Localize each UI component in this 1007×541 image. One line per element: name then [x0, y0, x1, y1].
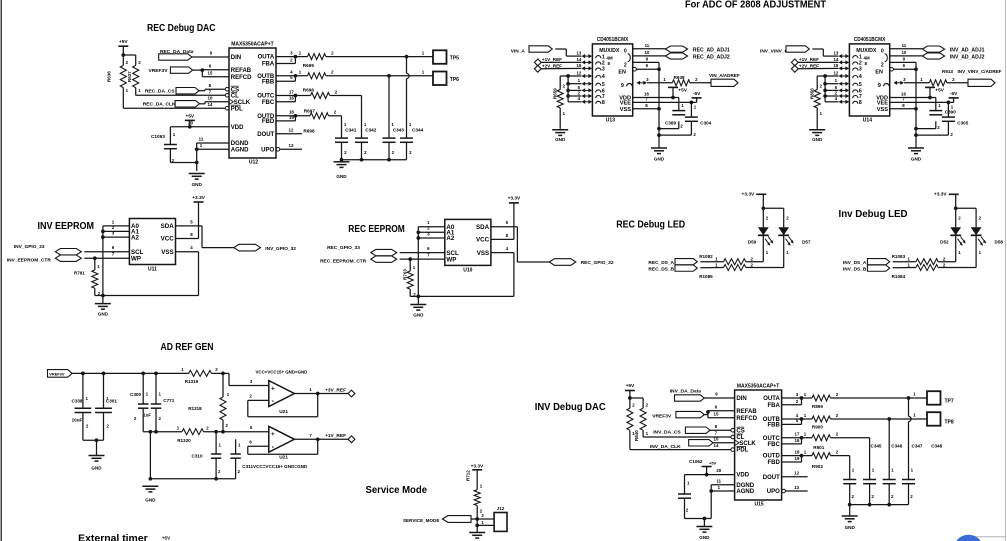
wire OUTA to TP7 and C348	[831, 392, 928, 480]
wire caps common ground INV	[848, 484, 909, 507]
op-amp U21 A	[256, 369, 308, 414]
capacitor C346	[863, 444, 903, 499]
wire +5V to resistor pair split	[121, 53, 135, 65]
svg-text:3: 3	[602, 67, 605, 73]
svg-text:FBB: FBB	[767, 423, 780, 429]
wire FBB loop	[276, 74, 297, 81]
svg-text:AGND: AGND	[736, 489, 754, 495]
svg-text:R637: R637	[127, 71, 132, 82]
node VIN_A/ADREF	[709, 73, 740, 86]
svg-text:CD4051BCMX: CD4051BCMX	[597, 37, 629, 43]
svg-text:REC Debug DAC: REC Debug DAC	[147, 23, 216, 34]
wire FBC loop U15	[782, 436, 804, 444]
wire VCC U10	[491, 238, 514, 240]
capacitor C343	[383, 122, 405, 155]
wire C338 C301 to ground	[83, 413, 104, 456]
power +3.3V service	[471, 463, 484, 489]
svg-text:VEE: VEE	[877, 101, 888, 107]
wire +1V_REF to channel 2	[798, 61, 838, 63]
node +1V_REF	[791, 57, 819, 66]
svg-text:DOUT: DOUT	[763, 475, 780, 481]
power +3.3V REC Debug LED	[742, 191, 767, 208]
svg-text:REC_GPIO_33: REC_GPIO_33	[327, 245, 360, 251]
svg-text:C348: C348	[931, 444, 942, 449]
wire mux pin9/pin6 to ground rail U14	[890, 62, 918, 148]
svg-text:U21: U21	[279, 454, 288, 460]
svg-text:R1319: R1319	[185, 379, 199, 384]
title REC EEPROM	[348, 224, 405, 235]
svg-text:C346: C346	[891, 444, 902, 449]
capacitor C1062	[678, 481, 691, 513]
svg-text:AD REF GEN: AD REF GEN	[161, 342, 214, 353]
svg-text:U13: U13	[606, 118, 615, 124]
wire UPO stub	[280, 148, 302, 150]
resistor R840	[634, 403, 649, 442]
svg-text:EN: EN	[875, 69, 883, 75]
node VREF3V input flag	[48, 370, 73, 378]
svg-text:15: 15	[208, 70, 213, 75]
title For ADC OF 2808 ADJUSTMENT	[685, 0, 827, 10]
svg-text:C771: C771	[163, 398, 174, 403]
svg-text:VIN_A: VIN_A	[511, 48, 526, 54]
svg-text:15: 15	[833, 63, 838, 68]
wire grounded channels bus U13	[560, 74, 581, 102]
capacitor C771	[144, 373, 175, 421]
pin numbers U11	[112, 219, 194, 256]
svg-text:INV_DA_CLK: INV_DA_CLK	[650, 444, 681, 450]
node INV_DA_CS	[653, 427, 710, 436]
capacitor C342	[355, 122, 377, 155]
svg-text:CD4051BCMX: CD4051BCMX	[854, 37, 886, 43]
svg-text:VCC: VCC	[476, 237, 490, 244]
svg-text:AGND: AGND	[231, 147, 249, 153]
svg-text:DOUT: DOUT	[257, 132, 274, 138]
svg-text:DGND: DGND	[231, 141, 249, 147]
resistor R1085	[699, 262, 753, 279]
wire opamp2 feedback	[248, 439, 318, 454]
wire VEE U13	[633, 101, 697, 118]
resistor R913 on common	[893, 69, 968, 86]
wire INV_VINV_C to channel 1	[812, 49, 838, 56]
svg-text:20: 20	[188, 120, 193, 125]
wire VSS and cap grounds U14	[890, 107, 949, 137]
power +5V external timer	[162, 536, 171, 541]
svg-text:INV_VINV_C: INV_VINV_C	[760, 48, 789, 54]
title External timer	[78, 534, 148, 541]
svg-text:+5V: +5V	[709, 460, 717, 465]
wire FBA loop U15	[782, 396, 804, 405]
svg-text:+5V: +5V	[119, 39, 128, 45]
svg-text:PDL: PDL	[736, 448, 748, 454]
wire REC_DA_CLK to SCLK	[200, 96, 230, 108]
svg-text:3: 3	[859, 67, 862, 73]
node INV_AD_ADJ1	[890, 46, 985, 53]
power +3.3V U11	[192, 195, 205, 239]
power +3.3V Inv Debug LED	[934, 191, 959, 208]
svg-text:A2: A2	[446, 235, 454, 242]
svg-text:+5V: +5V	[626, 383, 635, 389]
svg-text:INV_DA_CS: INV_DA_CS	[653, 430, 681, 436]
node REC_GPIO_33	[327, 245, 397, 256]
wire D58 cathode	[938, 235, 976, 267]
wire OUTA to TP5 and C344	[326, 50, 433, 138]
svg-text:R840: R840	[634, 430, 639, 441]
svg-text:INV_AD_ADJ2: INV_AD_ADJ2	[950, 54, 985, 60]
svg-text:VDD: VDD	[736, 473, 749, 479]
svg-text:GND: GND	[699, 535, 710, 540]
wire UPO stub U15	[785, 490, 807, 492]
testpoint TP8	[927, 412, 954, 426]
wire opamp2 output to +1V_REF	[294, 433, 348, 441]
resistor R1320	[177, 425, 210, 443]
svg-text:+1V_REF: +1V_REF	[325, 433, 346, 439]
resistor R902	[782, 449, 839, 469]
wire lower rail AD REF	[143, 408, 182, 479]
wire REC_DA_CS to CS	[199, 83, 226, 95]
title REC Debug DAC	[147, 23, 216, 34]
power +5V U13	[668, 87, 688, 99]
svg-text:INV_GPIO_33: INV_GPIO_33	[14, 244, 45, 250]
wire WP U11	[84, 256, 129, 260]
svg-text:R902: R902	[812, 464, 823, 469]
ground U10	[410, 296, 426, 317]
svg-text:+5V: +5V	[162, 536, 171, 541]
node VREF3V	[149, 67, 193, 74]
resistor R791	[74, 258, 101, 296]
svg-text:13: 13	[576, 51, 581, 56]
wire FBA loop	[276, 55, 297, 64]
wire R637 to CL pin	[136, 88, 226, 96]
LED D59	[748, 227, 774, 255]
resistor R712	[466, 470, 483, 514]
svg-text:GND: GND	[98, 311, 109, 316]
svg-text:C345: C345	[871, 444, 882, 449]
svg-text:13: 13	[289, 143, 294, 148]
svg-text:MAX5350ACAP+T: MAX5350ACAP+T	[231, 42, 274, 48]
svg-text:FBA: FBA	[262, 62, 275, 68]
svg-text:R696: R696	[303, 87, 315, 92]
IC U13 CD4051BCMX	[592, 37, 636, 124]
svg-text:5: 5	[859, 82, 862, 88]
svg-text:C342: C342	[365, 128, 377, 133]
svg-text:C338: C338	[72, 399, 83, 404]
svg-text:REC_EEPROM_CTR: REC_EEPROM_CTR	[320, 259, 367, 265]
ground R659	[552, 108, 568, 142]
svg-text:C305: C305	[957, 121, 968, 126]
capacitor C311	[230, 439, 308, 474]
svg-text:C341: C341	[345, 128, 357, 133]
svg-text:GND: GND	[555, 137, 566, 142]
svg-text:SERVICE_MODE: SERVICE_MODE	[403, 518, 439, 523]
svg-text:8: 8	[602, 100, 605, 106]
svg-text:C300: C300	[130, 392, 141, 397]
power +5V (U15 VDD) and label C1062	[689, 459, 717, 476]
IC U11 EEPROM	[129, 219, 175, 273]
svg-text:+3.3V: +3.3V	[508, 196, 521, 202]
svg-text:Inv Debug LED: Inv Debug LED	[839, 209, 908, 220]
title REC Debug LED	[616, 220, 685, 231]
page border left	[0, 0, 2, 541]
svg-text:GND: GND	[91, 466, 102, 471]
svg-text:14: 14	[714, 443, 719, 448]
resistor R659	[553, 76, 566, 116]
svg-text:9: 9	[621, 83, 624, 89]
wire R712 to J12 node	[475, 506, 479, 533]
svg-text:REC_DS_B: REC_DS_B	[648, 267, 674, 273]
wire R840 to CL pin INV	[643, 430, 732, 437]
wire INV_DA_CLK to SCLK INV	[713, 437, 735, 448]
pin numbers U14 right	[901, 43, 907, 108]
svg-text:0: 0	[881, 48, 884, 54]
svg-text:12: 12	[794, 471, 799, 476]
svg-text:C347: C347	[912, 444, 923, 449]
ground U12	[189, 174, 205, 180]
wire REC_DA_Data to DIN	[192, 51, 229, 57]
wire OUTD to C345	[831, 456, 850, 480]
svg-text:VSS: VSS	[161, 249, 173, 256]
svg-text:+3.3V: +3.3V	[934, 191, 947, 197]
svg-text:C343: C343	[393, 128, 405, 133]
node INV_DS_A	[843, 259, 890, 266]
wire OUTB to TP6 and C343	[326, 70, 433, 139]
svg-text:10: 10	[714, 437, 719, 442]
capacitor C310	[192, 432, 222, 474]
LED D58	[971, 227, 1004, 255]
node +1V_REF	[534, 57, 562, 66]
wire VIN_A to channel 1	[555, 49, 581, 56]
node INV_GPIO_32	[234, 244, 296, 252]
resistor R901	[782, 432, 839, 451]
wire VREF3V rail	[72, 372, 189, 376]
svg-text:19: 19	[795, 456, 800, 461]
wire VEE U14	[890, 101, 954, 118]
wire SCL U11	[84, 251, 129, 253]
wire SDA to flag U10	[491, 227, 550, 262]
svg-text:MUX/DX: MUX/DX	[856, 48, 877, 54]
resistor R696 (OUTB)	[276, 70, 334, 79]
resistor R696 label / OUTC resistor	[276, 87, 338, 98]
power +5V (REC DAC pull resistors)	[118, 39, 128, 55]
IC U14 CD4051BCMX	[849, 37, 893, 124]
svg-text:R1085: R1085	[699, 274, 713, 279]
svg-text:U15: U15	[755, 502, 764, 508]
svg-text:+2V_REF: +2V_REF	[799, 64, 819, 69]
node REC_AD_ADJ1	[633, 46, 730, 53]
wire VDD U13	[633, 98, 679, 111]
svg-text:GND: GND	[812, 137, 823, 142]
wire R1320 to opamp2	[204, 425, 269, 433]
capacitor C1093	[151, 132, 177, 163]
wire C1062 ground / DGND AGND U15	[685, 478, 735, 520]
resistor R1319	[181, 367, 218, 384]
svg-text:12: 12	[576, 70, 581, 75]
svg-text:REC_AD_ADJ1: REC_AD_ADJ1	[693, 47, 730, 53]
wire +1V_REF to channel 2	[541, 61, 581, 63]
svg-text:INV Debug DAC: INV Debug DAC	[535, 402, 606, 413]
node VREF3V (INV)	[652, 411, 704, 419]
svg-text:18: 18	[795, 449, 800, 454]
svg-text:OUTA: OUTA	[258, 55, 275, 61]
ground INV DAC caps	[842, 505, 858, 530]
svg-text:VCC=VCC15+ GND=GND: VCC=VCC15+ GND=GND	[256, 369, 308, 374]
node REC_DS_A	[648, 259, 697, 266]
wire LED branch REC Debug LED	[761, 206, 789, 227]
svg-text:INV_EEPROM_CTR: INV_EEPROM_CTR	[7, 258, 52, 264]
svg-text:1: 1	[859, 54, 862, 60]
resistor R763	[402, 259, 416, 297]
svg-text:18: 18	[289, 110, 294, 115]
svg-text:+3.3V: +3.3V	[742, 191, 755, 197]
node INV_DA_Data	[670, 388, 705, 401]
svg-text:+1V_REF: +1V_REF	[542, 57, 562, 62]
node INV_VINV_C/ADREF	[958, 69, 1002, 86]
capacitor C347	[883, 444, 923, 499]
svg-text:TP5: TP5	[450, 56, 459, 62]
capacitor C338	[72, 373, 92, 428]
svg-text:1uF: 1uF	[144, 413, 152, 418]
wire OUTC to C342	[330, 96, 362, 139]
svg-text:+3V_REF: +3V_REF	[325, 387, 346, 393]
svg-text:REFAB: REFAB	[736, 409, 757, 415]
wire opamp1 output to +3V_REF	[294, 387, 348, 395]
svg-text:CL: CL	[231, 93, 239, 99]
node REC_GPIO_32	[549, 259, 613, 267]
ground REC DAC caps	[334, 162, 350, 179]
svg-text:GND: GND	[192, 182, 203, 187]
svg-text:REC Debug LED: REC Debug LED	[616, 220, 685, 231]
svg-text:C310: C310	[192, 453, 203, 458]
svg-text:GND: GND	[413, 312, 424, 317]
node VIN_A	[511, 46, 553, 55]
resistor R900	[782, 413, 839, 430]
wire VDD rail U15	[685, 468, 735, 494]
svg-text:+2V_REF: +2V_REF	[542, 64, 562, 69]
svg-text:CS: CS	[736, 428, 744, 434]
node REC_DA_CLK	[143, 101, 200, 108]
svg-text:10: 10	[208, 96, 213, 101]
svg-text:INV_GPIO_32: INV_GPIO_32	[265, 246, 296, 252]
svg-text:4: 4	[859, 74, 862, 80]
svg-text:+3.3V: +3.3V	[192, 195, 205, 201]
pin numbers U15 right	[794, 392, 800, 490]
svg-text:11: 11	[645, 43, 650, 48]
wire OUTC to C346	[831, 438, 870, 480]
wire FBD loop U15	[782, 454, 804, 462]
svg-text:0: 0	[624, 48, 627, 54]
wire +5V to resistor pair split INV	[628, 396, 643, 408]
wire INV_DA_Data to DIN	[704, 392, 734, 398]
node INV_GPIO_33	[14, 244, 81, 255]
node +3V_REF	[325, 387, 355, 397]
svg-text:4: 4	[602, 74, 605, 80]
svg-text:VSS: VSS	[477, 250, 489, 257]
svg-text:PDL: PDL	[231, 106, 243, 112]
svg-text:+5V: +5V	[935, 87, 944, 93]
svg-text:MAX5350ACAP+T: MAX5350ACAP+T	[737, 383, 780, 389]
blue button bottom right	[955, 535, 982, 541]
wire grounded channels bus U14	[817, 74, 838, 102]
wire FBB loop U15	[782, 417, 804, 424]
svg-text:VSS: VSS	[620, 107, 631, 113]
ground AD REF main	[142, 486, 158, 502]
capacitor C300	[130, 373, 149, 421]
svg-text:17: 17	[289, 89, 294, 94]
svg-text:+3.3V: +3.3V	[471, 463, 484, 469]
svg-text:FBD: FBD	[262, 119, 275, 125]
svg-text:15: 15	[576, 63, 581, 68]
svg-text:GND: GND	[911, 156, 922, 161]
svg-text:5: 5	[602, 82, 605, 88]
wire R839 to PDL pin INV	[630, 430, 732, 449]
pin numbers U10	[427, 220, 509, 257]
svg-text:1: 1	[602, 54, 605, 60]
svg-text:-5V: -5V	[693, 91, 701, 97]
svg-text:WP: WP	[446, 256, 456, 263]
svg-text:R763: R763	[402, 269, 407, 280]
svg-text:10uF: 10uF	[72, 418, 83, 423]
svg-text:+5V: +5V	[678, 87, 687, 93]
node REC_DA_Data	[159, 49, 194, 60]
wire DOUT stub	[276, 133, 302, 135]
LED D57	[778, 227, 811, 255]
svg-text:INV_AD_ADJ1: INV_AD_ADJ1	[950, 47, 985, 53]
IC U10 EEPROM	[445, 219, 491, 273]
svg-text:U10: U10	[463, 268, 472, 274]
svg-text:R1082: R1082	[699, 254, 713, 259]
title AD REF GEN	[161, 342, 214, 353]
svg-text:FBC: FBC	[767, 442, 780, 448]
title Inv Debug LED	[839, 209, 908, 220]
svg-text:VEE: VEE	[620, 101, 631, 107]
resistor R1318	[188, 373, 230, 431]
power +5V (U12 VDD)	[185, 114, 195, 127]
node INV_DA_CLK	[650, 440, 713, 451]
svg-text:REC_GPIO_32: REC_GPIO_32	[581, 260, 614, 266]
svg-text:INV_DS_B: INV_DS_B	[843, 267, 867, 273]
resistor R697 (OUTD)	[276, 108, 337, 119]
svg-text:MUX/DX: MUX/DX	[599, 48, 620, 54]
svg-text:R695: R695	[303, 63, 315, 68]
wire bottom rail U10	[410, 253, 514, 299]
svg-text:9: 9	[878, 83, 881, 89]
svg-text:For ADC OF 2808 ADJUSTMENT: For ADC OF 2808 ADJUSTMENT	[685, 0, 827, 10]
wire mux pin9/pin6 to ground rail U13	[633, 62, 661, 148]
svg-text:R900: R900	[812, 424, 823, 429]
node REC_DA_CS	[145, 88, 199, 95]
resistor R839	[627, 403, 635, 436]
svg-text:UPO: UPO	[767, 489, 780, 495]
node REC_EEPROM_CTR	[320, 256, 397, 265]
svg-text:13: 13	[833, 51, 838, 56]
node REC_AD_ADJ2	[633, 53, 730, 61]
capacitor C344	[400, 122, 424, 155]
pin arrows and numbers U14 left	[833, 51, 849, 104]
svg-text:TP6: TP6	[450, 77, 459, 83]
wire ground to J12 pin1	[477, 520, 494, 526]
node +2V_REF	[791, 64, 819, 73]
wire opamp1 feedback	[248, 394, 318, 417]
wire R1319 to opamp1	[212, 372, 269, 386]
op-amp U21 B	[269, 426, 295, 460]
capacitor C345	[843, 444, 882, 499]
ground label U12	[192, 182, 203, 187]
wire D59 cathode	[746, 235, 764, 261]
wire DOUT stub U15	[782, 476, 808, 478]
capacitor C301	[95, 373, 117, 428]
svg-text:REC_DA_CLK: REC_DA_CLK	[143, 102, 176, 108]
title INV Debug DAC	[535, 402, 606, 413]
svg-text:U21: U21	[279, 409, 288, 415]
